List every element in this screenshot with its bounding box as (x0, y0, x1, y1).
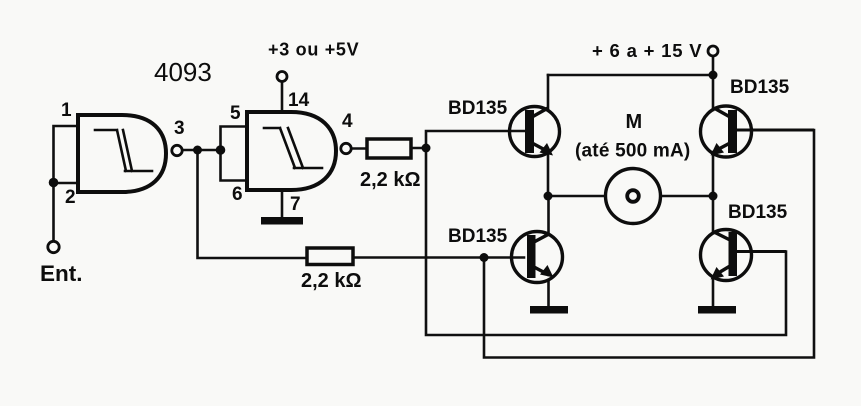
svg-text:4: 4 (342, 111, 353, 132)
svg-text:BD135: BD135 (728, 202, 788, 223)
svg-text:3: 3 (174, 118, 185, 139)
svg-text:+ 6 a + 15 V: + 6 a + 15 V (592, 40, 702, 61)
svg-text:+3 ou +5V: +3 ou +5V (268, 40, 359, 60)
svg-text:4093: 4093 (154, 57, 212, 87)
svg-text:2: 2 (65, 187, 76, 208)
svg-text:5: 5 (230, 103, 241, 124)
svg-text:M: M (626, 111, 643, 133)
svg-text:14: 14 (288, 90, 310, 111)
svg-text:BD135: BD135 (448, 226, 508, 247)
svg-text:(até 500 mA): (até 500 mA) (575, 141, 690, 162)
svg-text:1: 1 (61, 100, 72, 121)
svg-text:BD135: BD135 (448, 98, 508, 119)
svg-text:BD135: BD135 (730, 77, 790, 98)
svg-text:6: 6 (232, 184, 243, 205)
svg-text:2,2 kΩ: 2,2 kΩ (360, 169, 421, 191)
svg-text:2,2 kΩ: 2,2 kΩ (301, 270, 362, 292)
svg-text:Ent.: Ent. (40, 261, 83, 286)
svg-text:7: 7 (290, 194, 301, 215)
